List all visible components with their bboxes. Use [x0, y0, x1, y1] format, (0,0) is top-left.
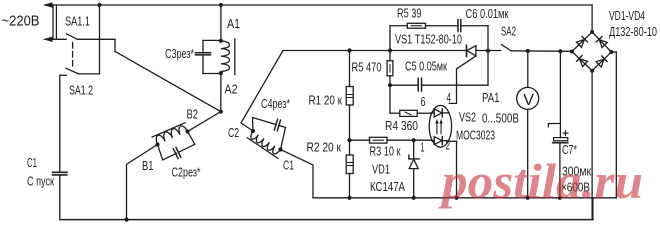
svg-text:С5 0.05мк: С5 0.05мк: [405, 59, 447, 74]
svg-text:С4рез*: С4рез*: [261, 96, 290, 111]
svg-text:SA1.2: SA1.2: [69, 83, 93, 98]
svg-text:R1 20 к: R1 20 к: [309, 93, 343, 108]
svg-text:VD1: VD1: [372, 162, 390, 177]
svg-text:С1: С1: [27, 155, 37, 170]
svg-text:~220В: ~220В: [2, 14, 40, 30]
svg-text:A2: A2: [225, 82, 238, 97]
svg-text:МОС3023: МОС3023: [456, 128, 495, 143]
svg-text:V: V: [523, 92, 534, 109]
svg-text:R4 360: R4 360: [385, 118, 418, 133]
svg-text:6: 6: [421, 94, 426, 109]
svg-text:postila.ru: postila.ru: [438, 153, 643, 209]
svg-text:С3рез*: С3рез*: [165, 46, 194, 61]
svg-text:Д132-80-10: Д132-80-10: [609, 24, 657, 39]
svg-text:R5 470: R5 470: [352, 60, 382, 75]
svg-text:A1: A1: [227, 16, 240, 31]
svg-text:VS1 Т152-80-10: VS1 Т152-80-10: [395, 32, 462, 47]
svg-text:SA2: SA2: [501, 24, 516, 39]
svg-text:R2 20 к: R2 20 к: [307, 140, 342, 155]
svg-text:SA1.1: SA1.1: [65, 14, 90, 29]
svg-text:С2рез*: С2рез*: [172, 165, 201, 180]
svg-text:1: 1: [421, 140, 425, 155]
svg-text:4: 4: [447, 90, 452, 105]
svg-text:С1: С1: [283, 158, 294, 173]
svg-text:VD1-VD4: VD1-VD4: [609, 8, 645, 23]
svg-text:B2: B2: [187, 107, 199, 122]
svg-text:РА1: РА1: [482, 90, 500, 105]
svg-text:C2: C2: [228, 125, 239, 140]
svg-text:B1: B1: [142, 158, 154, 173]
svg-text:VS2: VS2: [459, 110, 476, 125]
svg-text:С6 0.01мк: С6 0.01мк: [466, 6, 509, 21]
svg-text:С пуск: С пуск: [27, 174, 54, 189]
svg-text:R3 10 к: R3 10 к: [370, 144, 401, 159]
svg-text:0...500В: 0...500В: [482, 110, 519, 125]
svg-text:R5 39: R5 39: [397, 6, 422, 21]
svg-text:КС147А: КС147А: [370, 179, 405, 194]
svg-text:2: 2: [446, 138, 451, 153]
